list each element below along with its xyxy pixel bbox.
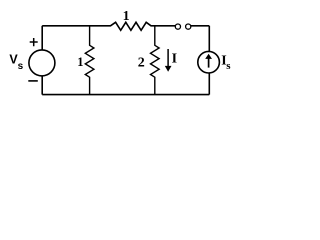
svg-text:1: 1 [77, 55, 83, 69]
svg-text:2: 2 [138, 55, 145, 70]
svg-text:1: 1 [123, 9, 130, 24]
svg-text:s: s [18, 61, 24, 72]
svg-text:I: I [172, 52, 177, 67]
svg-text:s: s [226, 60, 231, 72]
